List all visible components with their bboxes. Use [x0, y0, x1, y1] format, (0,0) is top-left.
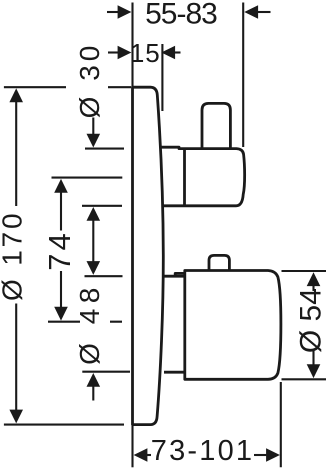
dim 15 right arrow tail	[174, 51, 180, 53]
top handle block	[160, 147, 244, 206]
dim Ø54 up arrowhead	[307, 272, 321, 286]
ext line right top (Ø54)	[282, 270, 326, 272]
dim Ø30 down arrowhead	[87, 134, 101, 148]
ext line top axis	[52, 177, 123, 179]
svg-text:73-101: 73-101	[151, 435, 255, 467]
dim Ø48 lower tail	[92, 386, 94, 401]
dim Ø170 bottom arrowhead	[9, 410, 23, 424]
dim Ø170 line upper	[15, 101, 17, 206]
svg-text:55-83: 55-83	[145, 0, 217, 30]
escutcheon plate (side view, Ø170)	[133, 87, 164, 424]
ext line bottom sleeve top	[85, 275, 123, 277]
dim Ø170 line lower	[15, 304, 17, 411]
dim Ø48 up arrowhead (outside)	[87, 373, 101, 387]
svg-text:Ø 48: Ø 48	[74, 282, 105, 365]
dim 15 left arrowhead	[118, 46, 132, 60]
dim 74 line upper	[60, 191, 62, 230]
svg-text:Ø 30: Ø 30	[74, 42, 105, 119]
ext line 73-101 right	[280, 382, 282, 467]
dim Ø54 lower tail	[312, 351, 314, 366]
ext line bottom sleeve bottom	[82, 371, 130, 373]
dim 74 down arrowhead	[54, 307, 68, 321]
dim Ø54 upper tail	[312, 285, 314, 291]
ext line bottom axis	[48, 321, 122, 323]
ext line plate bottom	[4, 424, 124, 426]
shared tail Ø30/Ø48	[92, 220, 94, 263]
dim 15 right arrowhead	[161, 46, 175, 60]
bottom handle sleeve top	[162, 275, 185, 278]
dim 74 up arrowhead	[54, 179, 68, 193]
ext line top handle bottom	[82, 205, 122, 207]
dim Ø170 top arrowhead	[9, 88, 23, 102]
top handle stem	[202, 103, 230, 148]
dim Ø30 upper tail	[92, 118, 94, 135]
ext line plate top	[4, 86, 131, 88]
top handle back line	[183, 149, 186, 206]
bottom handle sleeve bottom	[164, 371, 185, 374]
ext line 15 right	[161, 44, 163, 111]
dim 73-101 left tail	[147, 454, 151, 456]
ext line wall bottom	[131, 426, 133, 467]
svg-text:74: 74	[42, 230, 77, 270]
dim 55-83 left arrowhead	[118, 5, 132, 19]
dim 55-83 left arrow tail	[107, 11, 119, 13]
bottom handle block	[185, 271, 281, 380]
svg-text:15: 15	[130, 38, 161, 68]
svg-text:Ø 54: Ø 54	[295, 288, 326, 353]
dim 74 line lower	[60, 271, 62, 308]
svg-text:Ø 170: Ø 170	[0, 211, 28, 301]
dim Ø48 down arrowhead (outside)	[87, 261, 101, 275]
dim 55-83 right arrow tail	[257, 11, 270, 13]
ext line wall top	[131, 3, 133, 87]
dim 73-101 left arrowhead	[134, 448, 148, 462]
ext line right bottom (Ø54)	[282, 378, 326, 380]
dim 15 left arrow tail	[108, 51, 119, 53]
dim 55-83 right arrowhead	[244, 5, 258, 19]
dim Ø54 down arrowhead	[307, 364, 321, 378]
ext line 55-83 right	[242, 3, 244, 148]
bottom handle collar step	[175, 273, 185, 276]
dim 73-101 right tail	[254, 454, 266, 456]
bottom handle stem	[209, 255, 229, 270]
dim Ø30 up arrowhead (outside)	[87, 207, 101, 221]
dim 73-101 right arrowhead	[266, 448, 280, 462]
ext line top handle top	[85, 148, 124, 150]
